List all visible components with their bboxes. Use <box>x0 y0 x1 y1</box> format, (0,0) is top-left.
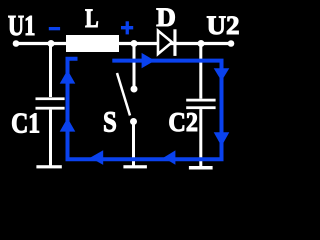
wire C2 top stub <box>199 44 202 99</box>
switch S blade <box>117 73 130 116</box>
current arrow up 2 (left side) <box>60 118 76 132</box>
node U2 terminal <box>228 40 235 47</box>
svg-text:S: S <box>103 106 117 139</box>
current arrow down 1 (right side) <box>214 68 230 81</box>
svg-text:D: D <box>156 3 176 32</box>
capacitor C2 plate 2 <box>186 106 215 109</box>
svg-text:L: L <box>85 4 99 33</box>
switch bottom T-bar <box>123 165 146 168</box>
polarity plus sign <box>121 26 133 29</box>
current arrow left B (bottom) <box>164 150 176 164</box>
current arrow left A (bottom) <box>90 150 103 165</box>
junction node C1 top <box>48 40 55 47</box>
svg-text:C1: C1 <box>11 108 40 140</box>
junction node C2 top <box>198 40 205 47</box>
current arrow down 2 (right side) <box>214 132 230 146</box>
diode D triangle <box>158 31 172 54</box>
polarity minus sign <box>49 27 60 30</box>
switch S bottom contact <box>130 118 137 125</box>
C1 bottom T-bar <box>36 165 61 168</box>
current arrow right (mid line) <box>142 53 155 68</box>
wire C2 bottom stub <box>199 109 202 166</box>
wire switch top stub <box>133 44 136 86</box>
wire switch bottom stub <box>132 124 135 166</box>
svg-text:U1: U1 <box>8 11 36 42</box>
svg-text:C2: C2 <box>168 107 198 137</box>
svg-text:U2: U2 <box>207 11 240 40</box>
wire C1 bottom stub <box>49 110 52 166</box>
switch S top contact <box>131 86 138 93</box>
node U1 terminal <box>13 40 20 47</box>
capacitor C1 plate 2 <box>36 107 65 110</box>
current arrow up 1 (left side) <box>60 70 76 84</box>
inductor L body <box>66 35 119 52</box>
diode D cathode bar <box>173 29 176 56</box>
capacitor C1 plate 1 <box>36 97 65 100</box>
wire top rail <box>16 42 231 45</box>
current loop wire (blue) <box>68 59 222 159</box>
wire C1 top stub <box>49 44 52 97</box>
junction node switch top <box>131 40 138 47</box>
capacitor C2 plate 1 <box>186 99 215 102</box>
C2 bottom T-bar <box>189 166 213 170</box>
